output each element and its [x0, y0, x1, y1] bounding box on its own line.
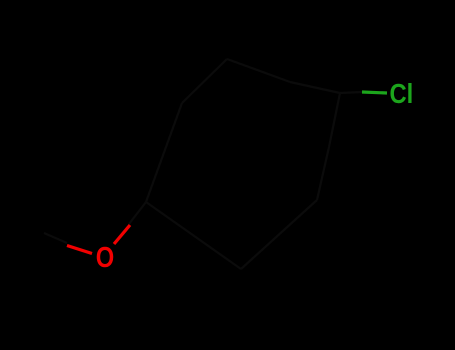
- ring right edge upper: [329, 93, 340, 147]
- ring edge C1 up-left long: [146, 103, 182, 202]
- ring bottom-right edge: [241, 200, 317, 269]
- ring bottom-left edge back to C1: [146, 202, 241, 269]
- bond CH3-O red half: [67, 246, 92, 254]
- ring edge to Cl carbon: [290, 82, 340, 93]
- bond CH3-O dark half: [44, 233, 67, 243]
- ring edge to apex: [182, 59, 227, 103]
- ring right edge lower: [317, 147, 329, 200]
- bond O-C1 red half: [114, 225, 130, 244]
- bond C-Cl green half: [362, 92, 387, 93]
- bond O-C1 dark half: [129, 202, 146, 224]
- ring top-right edge: [227, 59, 290, 82]
- svg-text:Cl: Cl: [390, 77, 414, 109]
- bond C-Cl dark half: [340, 92, 362, 93]
- svg-text:O: O: [96, 241, 114, 274]
